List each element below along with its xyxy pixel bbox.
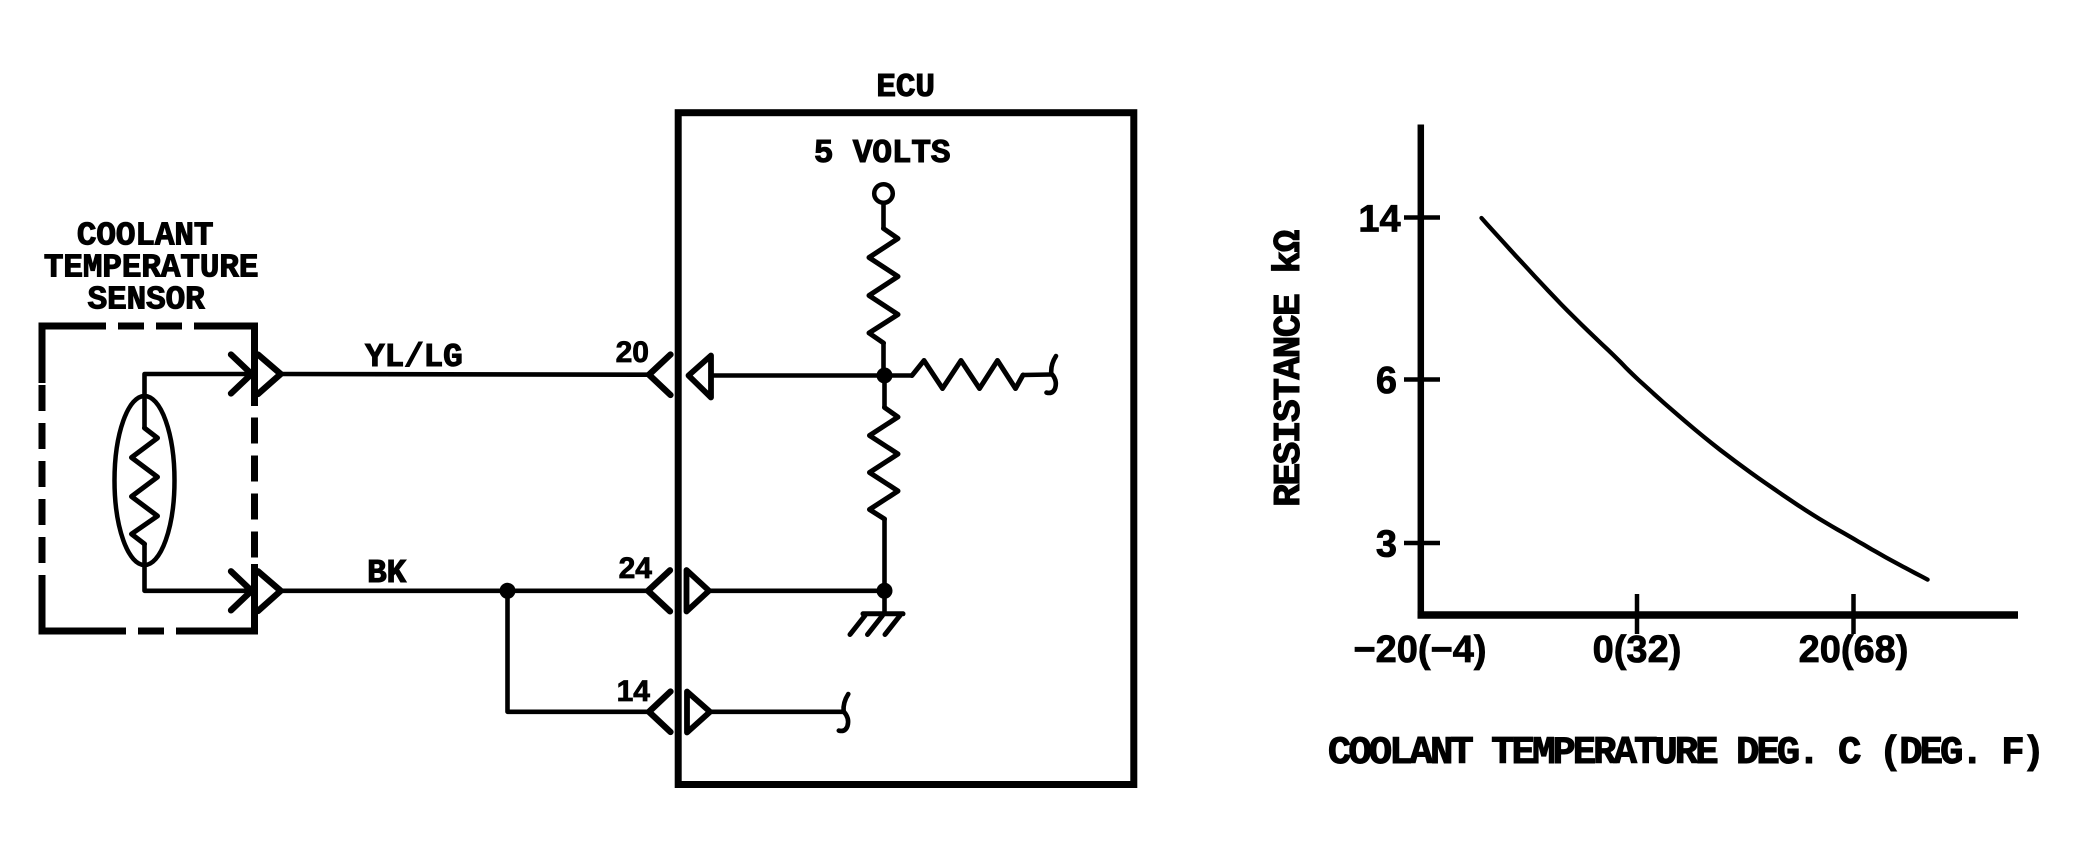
- svg-text:5 VOLTS: 5 VOLTS: [814, 135, 951, 172]
- svg-text:14: 14: [617, 675, 651, 708]
- coolant temperature sensor label: [44, 218, 259, 319]
- pin 20 inside triangle: [689, 356, 712, 398]
- continuation curl pin 14: [839, 694, 849, 731]
- svg-text:0(32): 0(32): [1593, 629, 1682, 671]
- svg-text:COOLANT TEMPERATURE DEG. C (DE: COOLANT TEMPERATURE DEG. C (DEG. F): [1328, 731, 2042, 775]
- x tick 0: [1635, 594, 1640, 634]
- resistor R2 (horizontal): [912, 361, 1023, 389]
- continuation curl R2: [1047, 356, 1057, 393]
- thermistor resistor zigzag: [132, 428, 158, 544]
- wire R2 to curl: [1023, 372, 1051, 377]
- svg-text:6: 6: [1376, 360, 1397, 402]
- svg-text:ECU: ECU: [876, 69, 935, 106]
- pin 20 outside chevron: [649, 355, 671, 396]
- svg-text:YL/LG: YL/LG: [365, 339, 463, 376]
- wire branch to pin 14: [508, 591, 649, 712]
- junction dot on BK wire: [500, 583, 516, 599]
- wire pin 24 to node B: [709, 588, 885, 593]
- graph y-axis: [1418, 125, 1425, 616]
- y tick 6: [1404, 377, 1440, 382]
- svg-text:20(68): 20(68): [1799, 629, 1909, 671]
- svg-text:BK: BK: [367, 555, 407, 592]
- wire R3 to node B: [882, 519, 887, 591]
- resistor R1 (pull-up): [869, 229, 898, 344]
- svg-text:14: 14: [1358, 199, 1400, 241]
- node B junction dot: [877, 583, 893, 599]
- wire sensor bottom lead: [145, 544, 252, 591]
- resistor R3 (lower): [870, 408, 899, 520]
- svg-text:−20(−4): −20(−4): [1353, 629, 1486, 671]
- thermistor sensing element ellipse: [115, 396, 175, 565]
- pin 24 inside triangle: [687, 570, 710, 612]
- connector chevrons top (sensor-harness): [231, 355, 252, 394]
- ECU box: [678, 113, 1134, 785]
- svg-text:SENSOR: SENSOR: [87, 282, 205, 319]
- y tick 14: [1404, 215, 1440, 220]
- wire node B to ground: [882, 591, 887, 614]
- graph x-axis: [1418, 611, 2019, 619]
- svg-text:24: 24: [619, 552, 653, 585]
- x tick 20: [1851, 594, 1856, 634]
- wire YL/LG to ECU pin 20: [281, 372, 649, 377]
- svg-text:3: 3: [1376, 524, 1397, 566]
- wire node A to R2: [885, 373, 913, 378]
- pin 14 outside chevron: [649, 692, 671, 733]
- connector chevrons bottom (sensor-harness): [231, 571, 252, 610]
- resistance curve: [1482, 218, 1928, 580]
- ground symbol: [850, 614, 903, 635]
- wire pin 20 to node A: [711, 373, 885, 378]
- wire terminal to R1: [881, 203, 886, 229]
- wire R1 to node A: [881, 343, 886, 376]
- wire BK to ECU pin 24: [281, 588, 648, 593]
- pin 14 inside triangle: [687, 692, 710, 733]
- node A junction dot: [877, 368, 893, 384]
- svg-text:RESISTANCE kΩ: RESISTANCE kΩ: [1268, 230, 1311, 506]
- y tick 3: [1404, 541, 1440, 546]
- 5V terminal circle: [874, 184, 893, 203]
- wire node A to R3: [882, 376, 887, 408]
- pin 24 outside chevron: [648, 570, 670, 611]
- wire sensor top lead: [145, 374, 252, 428]
- wire pin 14 stub: [710, 709, 844, 714]
- svg-text:20: 20: [616, 336, 649, 369]
- coolant temperature sensor dashed box: [42, 326, 255, 631]
